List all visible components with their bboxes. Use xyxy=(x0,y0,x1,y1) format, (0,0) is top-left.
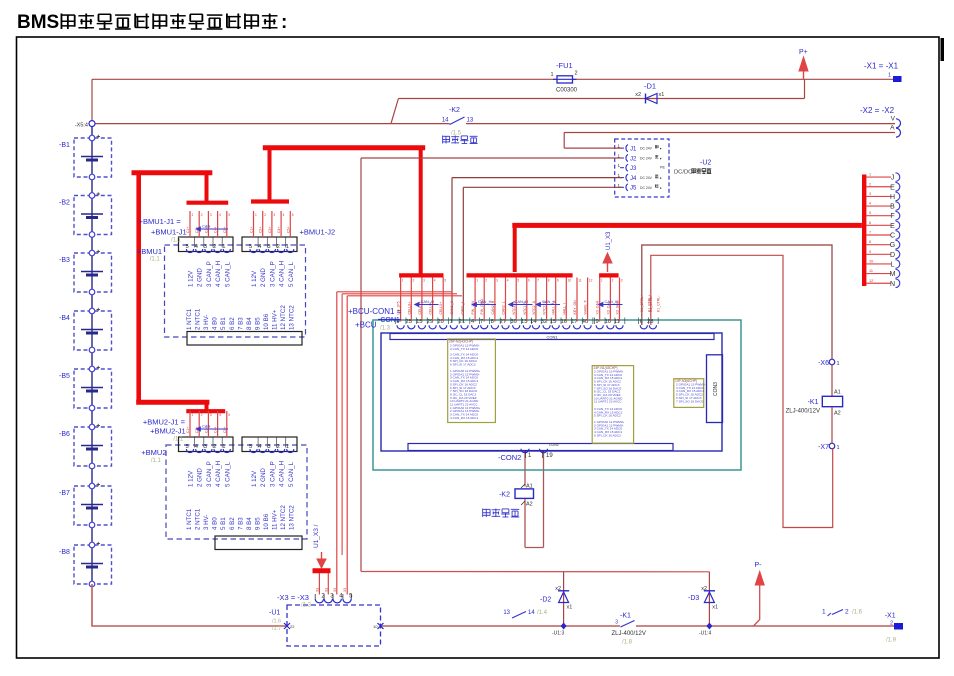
svg-text:2: 2 xyxy=(201,413,203,417)
svg-text:14: 14 xyxy=(528,610,535,616)
svg-text:1: 1 xyxy=(476,279,478,283)
svg-text:2: 2 xyxy=(213,444,216,450)
svg-text:3 CAN_TX 14 ADC0: 3 CAN_TX 14 ADC0 xyxy=(450,347,478,351)
svg-text:DC 24V: DC 24V xyxy=(640,186,653,190)
svg-text:-CON1: -CON1 xyxy=(378,317,400,324)
svg-text:C4+: C4+ xyxy=(277,227,281,233)
svg-text:CAN: CAN xyxy=(202,424,211,429)
svg-text:8 B4: 8 B4 xyxy=(246,317,253,330)
svg-text:1: 1 xyxy=(888,73,891,79)
svg-text:-X3 = -X3: -X3 = -X3 xyxy=(277,593,309,602)
svg-text:ZLJ-400/12V: ZLJ-400/12V xyxy=(786,409,820,415)
svg-text:E: E xyxy=(890,184,895,191)
svg-text:3: 3 xyxy=(621,279,623,283)
svg-text:4 CAN_H: 4 CAN_H xyxy=(215,461,222,487)
svg-text:2: 2 xyxy=(485,279,487,283)
svg-text:K1_CTRL+: K1_CTRL+ xyxy=(640,295,644,312)
svg-text:3: 3 xyxy=(204,444,207,450)
svg-text:LM_1P5: LM_1P5 xyxy=(397,301,401,314)
svg-text:C: C xyxy=(890,233,895,240)
svg-text:-X7: -X7 xyxy=(818,444,829,451)
svg-text:2 GND: 2 GND xyxy=(260,468,267,487)
svg-text:-X2 = -X2: -X2 = -X2 xyxy=(860,106,895,115)
svg-text:2: 2 xyxy=(575,71,578,77)
svg-text:7: 7 xyxy=(537,279,539,283)
svg-text::: : xyxy=(281,12,287,33)
svg-text:7 B3: 7 B3 xyxy=(237,317,244,330)
svg-text:+BCU: +BCU xyxy=(355,321,377,330)
svg-text:11 UART1 22 AVCC: 11 UART1 22 AVCC xyxy=(594,400,622,404)
svg-text:3: 3 xyxy=(210,413,212,417)
svg-text:C2+: C2+ xyxy=(259,227,263,233)
svg-text:5 CAN_L: 5 CAN_L xyxy=(224,461,231,487)
svg-text:5: 5 xyxy=(292,213,294,217)
svg-text:5 CAN_L: 5 CAN_L xyxy=(224,261,231,287)
svg-text:4 B0: 4 B0 xyxy=(212,317,219,330)
svg-text:-D2: -D2 xyxy=(540,597,551,604)
svg-text:10 B6: 10 B6 xyxy=(263,313,270,330)
svg-text:-B3: -B3 xyxy=(59,257,70,264)
svg-text:19: 19 xyxy=(546,453,553,459)
svg-text:-U1:4: -U1:4 xyxy=(699,631,711,637)
svg-text:12 NTC2: 12 NTC2 xyxy=(280,305,287,330)
svg-text:-D1: -D1 xyxy=(644,82,656,91)
svg-text:10: 10 xyxy=(568,279,572,283)
svg-text:3 HV-: 3 HV- xyxy=(203,515,210,530)
svg-text:3: 3 xyxy=(615,620,618,626)
svg-text:7 SPI_SO 18 DAC0: 7 SPI_SO 18 DAC0 xyxy=(676,399,703,403)
svg-text:4: 4 xyxy=(219,213,221,217)
svg-text:1 NTC1: 1 NTC1 xyxy=(186,308,193,330)
svg-text:F: F xyxy=(890,213,894,220)
svg-text:M: M xyxy=(890,271,896,278)
svg-text:2: 2 xyxy=(201,213,203,217)
svg-text:1: 1 xyxy=(286,444,289,450)
svg-text:2: 2 xyxy=(277,444,280,450)
svg-text:12 NTC2: 12 NTC2 xyxy=(280,505,287,530)
svg-text:1: 1 xyxy=(837,361,840,367)
svg-text:+BMU1-J1: +BMU1-J1 xyxy=(151,228,187,237)
svg-text:-B5: -B5 xyxy=(59,373,70,380)
svg-text:B: B xyxy=(890,204,895,211)
svg-text:2: 2 xyxy=(869,182,871,186)
svg-text:/1.1: /1.1 xyxy=(150,257,161,263)
svg-text:X3: X3 xyxy=(333,588,337,592)
svg-text:/1.5: /1.5 xyxy=(451,131,462,137)
svg-text:+BMU1-J2: +BMU1-J2 xyxy=(300,228,336,237)
svg-text:3: 3 xyxy=(496,279,498,283)
svg-text:DC/DC: DC/DC xyxy=(674,170,692,176)
svg-text:4 CAN_H: 4 CAN_H xyxy=(279,461,286,487)
svg-text:11: 11 xyxy=(578,279,582,283)
svg-text:-K1: -K1 xyxy=(620,613,631,620)
svg-text:U1_X3 /: U1_X3 / xyxy=(313,524,320,548)
svg-text:K1_CTRL-: K1_CTRL- xyxy=(649,295,653,312)
svg-text:3 CAN_P: 3 CAN_P xyxy=(269,461,276,487)
svg-text:1: 1 xyxy=(222,244,225,250)
svg-text:+BMU1-J1 =: +BMU1-J1 = xyxy=(139,217,182,226)
svg-text:6 SPI_SI 17 ADC3: 6 SPI_SI 17 ADC3 xyxy=(450,363,476,367)
svg-text:3: 3 xyxy=(273,213,275,217)
svg-text:5: 5 xyxy=(228,413,230,417)
svg-text:4 CAN_H: 4 CAN_H xyxy=(279,261,286,287)
svg-text:6: 6 xyxy=(869,221,871,225)
svg-text:4 CAN_RX 15 ADC1: 4 CAN_RX 15 ADC1 xyxy=(450,416,479,420)
svg-text:x1: x1 xyxy=(567,605,573,611)
svg-text:+BMU1: +BMU1 xyxy=(137,247,162,256)
svg-text:11 HV+: 11 HV+ xyxy=(272,309,279,330)
svg-text:5 B1: 5 B1 xyxy=(220,517,227,530)
svg-text:DC 24V: DC 24V xyxy=(640,157,653,161)
svg-text:-B6: -B6 xyxy=(59,431,70,438)
svg-text:3: 3 xyxy=(267,244,270,250)
svg-text:-U2: -U2 xyxy=(700,160,711,167)
svg-text:2 GND: 2 GND xyxy=(197,268,204,287)
svg-text:10: 10 xyxy=(373,624,378,629)
svg-text:/1.3: /1.3 xyxy=(301,603,312,609)
svg-text:1: 1 xyxy=(255,213,257,217)
svg-text:A2: A2 xyxy=(526,502,533,508)
svg-text:C5+: C5+ xyxy=(223,427,227,433)
svg-text:-B4: -B4 xyxy=(59,315,70,322)
svg-text:-B2: -B2 xyxy=(59,200,70,207)
svg-text:8: 8 xyxy=(869,240,871,244)
svg-text:/1.7: /1.7 xyxy=(272,626,281,632)
svg-text:CAN_H: CAN_H xyxy=(542,299,556,304)
svg-text:x1: x1 xyxy=(712,605,718,611)
svg-text:X3: X3 xyxy=(324,588,328,592)
svg-text:1: 1 xyxy=(286,244,289,250)
svg-text:C00300: C00300 xyxy=(556,88,578,94)
svg-text:4 B0: 4 B0 xyxy=(212,517,219,530)
svg-text:/1.3: /1.3 xyxy=(380,326,391,332)
svg-text:CAN1_H: CAN1_H xyxy=(450,300,454,314)
svg-text:4: 4 xyxy=(219,413,221,417)
svg-text:U1_X3: U1_X3 xyxy=(606,231,612,250)
svg-text:22: 22 xyxy=(290,624,295,629)
svg-text:10: 10 xyxy=(869,259,873,263)
svg-text:BMS: BMS xyxy=(17,12,59,33)
svg-text:CAN: CAN xyxy=(202,224,211,229)
svg-text:1: 1 xyxy=(822,609,826,616)
svg-text:5: 5 xyxy=(517,279,519,283)
svg-text:2 GND: 2 GND xyxy=(197,468,204,487)
svg-text:/1.6: /1.6 xyxy=(852,610,863,616)
svg-text:6: 6 xyxy=(528,279,530,283)
svg-text:-U1: -U1 xyxy=(269,610,280,617)
svg-text:CON3: CON3 xyxy=(713,382,719,396)
svg-text:/1.1: /1.1 xyxy=(173,437,184,443)
svg-text:6: 6 xyxy=(640,319,643,325)
svg-text:3: 3 xyxy=(210,213,212,217)
svg-text:J4: J4 xyxy=(630,176,637,182)
svg-text:2: 2 xyxy=(890,621,893,627)
svg-text:CON2: CON2 xyxy=(549,443,559,447)
svg-text:3 CAN_P: 3 CAN_P xyxy=(269,261,276,287)
svg-text:WAKE_P: WAKE_P xyxy=(584,299,588,314)
svg-text:1: 1 xyxy=(192,213,194,217)
svg-text:13: 13 xyxy=(503,610,510,616)
svg-text:2: 2 xyxy=(413,279,415,283)
svg-text:G: G xyxy=(890,242,895,249)
svg-text:x1: x1 xyxy=(659,92,665,98)
svg-text:PE: PE xyxy=(660,166,666,170)
svg-text:DC 24V: DC 24V xyxy=(640,176,653,180)
svg-text:12: 12 xyxy=(869,279,873,283)
svg-text:4: 4 xyxy=(869,202,871,206)
svg-text:1 12V: 1 12V xyxy=(251,470,258,487)
svg-text:2 NTC1: 2 NTC1 xyxy=(195,308,202,330)
svg-text:+BMU2: +BMU2 xyxy=(141,448,166,457)
svg-text:CELL5+: CELL5+ xyxy=(439,302,443,315)
svg-text:14: 14 xyxy=(442,118,449,124)
svg-text:2 NTC1: 2 NTC1 xyxy=(195,508,202,530)
svg-text:3 HV-: 3 HV- xyxy=(203,315,210,330)
svg-text:C4+: C4+ xyxy=(214,227,218,233)
svg-text:3: 3 xyxy=(204,244,207,250)
svg-text:C1+: C1+ xyxy=(186,427,190,433)
svg-text:-B1: -B1 xyxy=(59,142,70,149)
svg-text:3 CAN_P: 3 CAN_P xyxy=(206,461,213,487)
svg-text:11 HV+: 11 HV+ xyxy=(272,509,279,530)
svg-text:1 NTC1: 1 NTC1 xyxy=(186,508,193,530)
svg-text:2: 2 xyxy=(845,609,849,616)
svg-text:A: A xyxy=(890,125,895,132)
svg-text:J2: J2 xyxy=(630,156,637,162)
svg-text:3: 3 xyxy=(423,279,425,283)
svg-text:ZLJ-400/12V: ZLJ-400/12V xyxy=(612,631,646,637)
svg-text:13 NTC2: 13 NTC2 xyxy=(289,505,296,530)
svg-text:9: 9 xyxy=(595,319,598,325)
svg-text:2 GND: 2 GND xyxy=(260,268,267,287)
svg-text:1: 1 xyxy=(192,413,194,417)
svg-text:NTC2_A: NTC2_A xyxy=(532,300,536,314)
svg-text:/1.1: /1.1 xyxy=(151,458,162,464)
svg-text:21: 21 xyxy=(459,319,465,325)
svg-text:7: 7 xyxy=(869,231,871,235)
svg-text:3: 3 xyxy=(869,192,871,196)
svg-text:-K2: -K2 xyxy=(499,492,510,499)
svg-text:2: 2 xyxy=(612,279,614,283)
svg-text:-FU1: -FU1 xyxy=(556,61,573,70)
svg-text:2: 2 xyxy=(213,244,216,250)
svg-text:4: 4 xyxy=(507,279,509,283)
svg-text:J: J xyxy=(891,175,895,182)
svg-text:▸: ▸ xyxy=(660,157,662,161)
svg-text:A2: A2 xyxy=(834,411,841,417)
svg-text:-X1 = -X1: -X1 = -X1 xyxy=(864,62,899,71)
svg-text:D: D xyxy=(890,252,895,259)
svg-text:+BMU2-J1: +BMU2-J1 xyxy=(150,427,186,436)
svg-text:CELL8+: CELL8+ xyxy=(407,302,411,315)
svg-text:11: 11 xyxy=(869,269,873,273)
svg-text:1 12V: 1 12V xyxy=(251,270,258,287)
svg-text:-CON2: -CON2 xyxy=(498,453,521,462)
svg-text:-X5:4: -X5:4 xyxy=(75,122,88,128)
svg-text:8: 8 xyxy=(548,279,550,283)
svg-text:H: H xyxy=(890,194,895,201)
svg-text:▸: ▸ xyxy=(660,147,662,151)
svg-text:DC 24V: DC 24V xyxy=(640,147,653,151)
svg-text:5: 5 xyxy=(228,213,230,217)
svg-text:X3: X3 xyxy=(315,588,319,592)
svg-text:L: L xyxy=(891,261,895,268)
svg-text:2: 2 xyxy=(277,244,280,250)
svg-text:J5: J5 xyxy=(630,186,637,192)
svg-text:/1.9: /1.9 xyxy=(886,638,897,644)
svg-text:-U1:3: -U1:3 xyxy=(552,631,564,637)
svg-text:CAN_H: CAN_H xyxy=(478,299,492,304)
svg-text:V: V xyxy=(891,115,896,122)
svg-text:/1.4: /1.4 xyxy=(537,610,548,616)
svg-text:▸: ▸ xyxy=(660,186,662,190)
svg-text:CON1: CON1 xyxy=(546,334,558,339)
svg-text:C3+: C3+ xyxy=(268,227,272,233)
svg-text:7 B3: 7 B3 xyxy=(237,517,244,530)
svg-text:5: 5 xyxy=(249,244,252,250)
svg-text:J1: J1 xyxy=(630,146,637,152)
svg-text:5: 5 xyxy=(186,444,189,450)
svg-text:1 12V: 1 12V xyxy=(188,470,195,487)
svg-text:5: 5 xyxy=(249,444,252,450)
svg-text:+BMU2-J1 =: +BMU2-J1 = xyxy=(143,418,186,427)
svg-text:9: 9 xyxy=(869,250,871,254)
svg-text:N: N xyxy=(890,281,895,288)
svg-text:PW_12V: PW_12V xyxy=(471,300,475,314)
svg-text:A1: A1 xyxy=(526,484,533,490)
svg-text:1: 1 xyxy=(601,279,603,283)
svg-text:9 B5: 9 B5 xyxy=(254,517,261,530)
svg-text:▸: ▸ xyxy=(660,176,662,180)
svg-text:-B8: -B8 xyxy=(59,549,70,556)
svg-text:X3_CAH: X3_CAH xyxy=(596,300,600,314)
svg-text:x2: x2 xyxy=(635,92,641,98)
svg-text:1: 1 xyxy=(402,279,404,283)
svg-text:1: 1 xyxy=(869,173,871,177)
svg-text:K1_CTRL-: K1_CTRL- xyxy=(656,295,660,312)
svg-text:8 B4: 8 B4 xyxy=(246,517,253,530)
svg-text:1: 1 xyxy=(222,444,225,450)
svg-text:8: 8 xyxy=(491,319,494,325)
svg-text:-B7: -B7 xyxy=(59,490,70,497)
svg-text:/1.1: /1.1 xyxy=(171,238,182,244)
svg-text:10 B6: 10 B6 xyxy=(263,513,270,530)
svg-text:KEY_ON: KEY_ON xyxy=(573,300,577,315)
svg-text:5 SPI_CK 16 ADC2: 5 SPI_CK 16 ADC2 xyxy=(594,433,621,437)
svg-text:13: 13 xyxy=(467,118,474,124)
svg-text:5 B1: 5 B1 xyxy=(220,317,227,330)
svg-text:6 B2: 6 B2 xyxy=(229,517,236,530)
svg-text:9: 9 xyxy=(557,279,559,283)
svg-text:3 CAN_P: 3 CAN_P xyxy=(206,261,213,287)
svg-text:-K2: -K2 xyxy=(449,107,460,114)
svg-text:12: 12 xyxy=(589,279,593,283)
svg-text:CAN1_L: CAN1_L xyxy=(461,301,465,314)
svg-text:-X1: -X1 xyxy=(885,613,896,620)
svg-text:A1: A1 xyxy=(834,390,841,396)
svg-text:/1.6: /1.6 xyxy=(272,619,281,625)
svg-text:1 12V: 1 12V xyxy=(188,270,195,287)
svg-text:4: 4 xyxy=(283,213,285,217)
svg-text:5: 5 xyxy=(869,211,871,215)
svg-text:5: 5 xyxy=(186,244,189,250)
svg-text:1: 1 xyxy=(550,72,553,78)
svg-text:3: 3 xyxy=(267,444,270,450)
svg-text:P-: P- xyxy=(755,562,763,569)
svg-text:1: 1 xyxy=(450,319,453,325)
svg-text:1: 1 xyxy=(837,445,840,451)
svg-text:C1+: C1+ xyxy=(250,227,254,233)
svg-text:-D3: -D3 xyxy=(688,595,699,602)
svg-text:5 CAN_L: 5 CAN_L xyxy=(288,261,295,287)
svg-text:C5+: C5+ xyxy=(286,227,290,233)
svg-text:-X6: -X6 xyxy=(818,360,829,367)
svg-text:HALL_I: HALL_I xyxy=(562,303,566,315)
svg-text:X3: X3 xyxy=(343,588,347,592)
svg-text:+BCU-CON1 =: +BCU-CON1 = xyxy=(348,307,402,316)
svg-text:4 CAN_H: 4 CAN_H xyxy=(215,261,222,287)
svg-text:5 CAN_L: 5 CAN_L xyxy=(288,461,295,487)
svg-text:4: 4 xyxy=(434,279,436,283)
svg-text:2: 2 xyxy=(264,213,266,217)
svg-text:7: 7 xyxy=(480,319,483,325)
svg-text:E: E xyxy=(890,223,895,230)
svg-text:5 SPI_CK 16 ADC2: 5 SPI_CK 16 ADC2 xyxy=(594,414,621,418)
svg-text:/1.8: /1.8 xyxy=(622,640,633,646)
svg-text:CAN_H: CAN_H xyxy=(421,299,435,304)
svg-text:6 B2: 6 B2 xyxy=(229,317,236,330)
svg-text:CAN_H: CAN_H xyxy=(605,299,619,304)
svg-text:CAN_H: CAN_H xyxy=(515,299,529,304)
svg-text:P+: P+ xyxy=(799,49,808,56)
svg-text:13 NTC2: 13 NTC2 xyxy=(289,305,296,330)
svg-text:C4+: C4+ xyxy=(214,427,218,433)
svg-text:9 B5: 9 B5 xyxy=(254,317,261,330)
svg-text:-K1: -K1 xyxy=(808,399,819,406)
svg-text:5: 5 xyxy=(444,279,446,283)
svg-text:C5+: C5+ xyxy=(223,227,227,233)
svg-text:J3: J3 xyxy=(630,166,637,172)
svg-text:CAN2_L: CAN2_L xyxy=(502,301,506,314)
